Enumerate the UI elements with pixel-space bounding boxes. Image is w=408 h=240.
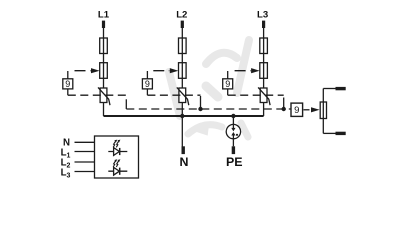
indicator box	[95, 136, 139, 178]
watermark	[169, 40, 249, 137]
fuse F3	[260, 38, 268, 54]
varistor L2	[179, 88, 186, 103]
svg-text:9: 9	[294, 105, 299, 116]
junction dot PE	[231, 114, 235, 118]
varistor L1	[100, 88, 107, 103]
wire L3 input	[75, 171, 95, 173]
terminal L3	[262, 21, 265, 28]
disconnector L1	[100, 63, 108, 79]
junction dot N	[180, 114, 184, 118]
terminal remote bottom	[336, 132, 346, 135]
terminal L1	[102, 21, 105, 28]
svg-text:L1: L1	[98, 10, 110, 21]
disconnector L3	[260, 63, 268, 79]
LED D2	[108, 159, 127, 175]
monitor dashed line L1	[68, 94, 127, 96]
svg-text:9: 9	[65, 79, 70, 89]
monitor dashed line L2	[147, 94, 200, 96]
wire PE drop	[232, 116, 234, 124]
wire	[232, 139, 234, 147]
svg-text:L3: L3	[257, 10, 268, 21]
junction dot	[198, 107, 202, 111]
svg-text:PE: PE	[226, 155, 243, 169]
terminal N	[182, 146, 185, 154]
monitor dashed line L3	[228, 94, 284, 96]
wire top	[323, 88, 336, 90]
svg-text:L2: L2	[176, 10, 187, 21]
monitor rail	[126, 108, 291, 110]
thermal monitor box L3	[227, 71, 229, 79]
terminal L2	[181, 21, 184, 28]
varistor L3	[260, 88, 267, 103]
wire bottom	[323, 132, 336, 134]
wire N input	[75, 141, 95, 143]
svg-text:N: N	[180, 155, 189, 169]
terminal PE	[232, 146, 235, 154]
arrow to disconnector L1	[75, 70, 91, 72]
svg-text:9: 9	[145, 79, 150, 89]
remote contact	[322, 89, 324, 134]
wire	[103, 28, 105, 116]
terminal remote top	[336, 87, 346, 90]
wire L1 input	[75, 151, 95, 153]
svg-text:9: 9	[225, 79, 230, 89]
LED D1	[108, 140, 127, 156]
arrow to disconnector L3	[235, 70, 251, 72]
PE bus	[104, 115, 264, 117]
thermal monitor box remote	[291, 103, 303, 116]
wire	[263, 28, 265, 116]
fuse F2	[179, 38, 187, 54]
wire L2 input	[75, 161, 95, 163]
junction dot	[282, 107, 286, 111]
fuse F1	[100, 38, 108, 54]
thermal monitor box L2	[146, 71, 148, 79]
disconnector L2	[179, 63, 187, 79]
arrow to disconnector L2	[153, 70, 169, 72]
thermal monitor box L1	[67, 71, 69, 79]
arrow to remote contact	[304, 109, 312, 111]
wire	[181, 28, 183, 147]
spark gap N-PE	[226, 124, 240, 138]
